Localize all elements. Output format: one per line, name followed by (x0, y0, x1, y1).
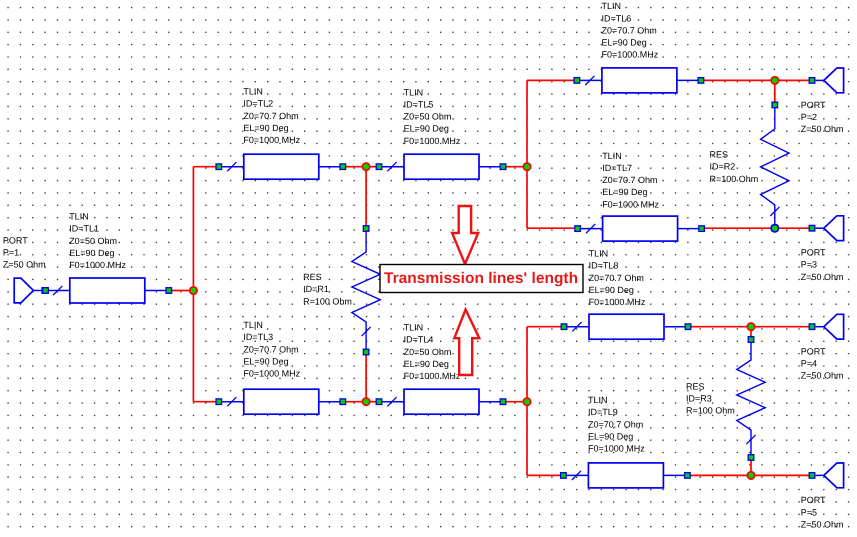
transmission line TL9 (561, 463, 691, 488)
svg-text:R=100 Ohm: R=100 Ohm (710, 174, 759, 184)
wire junction to resistor R2 top (774, 80, 776, 105)
resistor R1 (352, 226, 380, 355)
wire resistor R3 bottom to junction (750, 458, 752, 476)
junction node at TL6 output net (771, 77, 778, 84)
svg-text:ID=TL9: ID=TL9 (588, 407, 618, 417)
resistor R3 (737, 337, 765, 461)
transmission line TL5 (376, 154, 506, 179)
port P4 (809, 314, 843, 339)
svg-text:Z0=70.7 Ohm: Z0=70.7 Ohm (588, 419, 643, 429)
svg-text:ID=TL2: ID=TL2 (243, 99, 273, 109)
junction node at TL9 output net (747, 472, 754, 479)
svg-text:EL=90 Deg: EL=90 Deg (588, 431, 633, 441)
svg-text:PORT: PORT (801, 346, 826, 356)
svg-text:F0=1000 MHz: F0=1000 MHz (243, 135, 300, 145)
svg-text:TLIN: TLIN (589, 249, 609, 259)
label R3 parameters (686, 381, 735, 415)
svg-text:ID=R2: ID=R2 (710, 162, 736, 172)
wire junction to resistor R3 top (750, 327, 752, 340)
wire vertical net TL6 row to TL7 row (526, 80, 528, 228)
svg-text:ID=TL6: ID=TL6 (602, 13, 632, 23)
label port P2 parameters (801, 100, 844, 134)
svg-text:F0=1000 MHz: F0=1000 MHz (243, 369, 300, 379)
svg-text:PORT: PORT (801, 248, 826, 258)
junction node at TL8 output net (747, 323, 754, 330)
wire TL8 output to port 4 (688, 326, 812, 328)
svg-text:F0=1000 MHz: F0=1000 MHz (589, 297, 646, 307)
port P1 (14, 278, 45, 303)
wire vertical net from TL2 row to TL3 row (192, 167, 194, 402)
junction node at TL3 output (362, 398, 369, 405)
junction node at TL1 output (190, 287, 197, 294)
resistor R2 (761, 102, 789, 231)
svg-text:ID=TL5: ID=TL5 (404, 100, 434, 110)
transmission line TL7 (575, 216, 705, 241)
transmission line TL4 (376, 389, 506, 414)
svg-text:Z=50 Ohm: Z=50 Ohm (801, 371, 844, 381)
transmission line TL6 (574, 68, 704, 93)
svg-text:EL=90 Deg: EL=90 Deg (243, 356, 288, 366)
svg-text:TLIN: TLIN (602, 1, 622, 11)
svg-text:Z0=50 Ohm: Z0=50 Ohm (404, 112, 452, 122)
svg-text:F0=1000 MHz: F0=1000 MHz (404, 136, 461, 146)
svg-text:ID=TL7: ID=TL7 (602, 163, 632, 173)
svg-text:EL=90 Deg: EL=90 Deg (602, 38, 647, 48)
wire to TL7 input (527, 227, 578, 229)
svg-text:ID=TL1: ID=TL1 (69, 224, 99, 234)
wire junction to resistor R1 top (365, 167, 367, 229)
svg-text:Z0=50 Ohm: Z0=50 Ohm (404, 347, 452, 357)
svg-text:EL=90 Deg: EL=90 Deg (243, 123, 288, 133)
wire to TL9 input (527, 474, 563, 476)
svg-text:F0=1000 MHz: F0=1000 MHz (404, 371, 461, 381)
transmission line TL3 (216, 389, 346, 414)
svg-text:Z0=70.7 Ohm: Z0=70.7 Ohm (243, 111, 298, 121)
label port P4 parameters (801, 346, 844, 380)
svg-text:P=1: P=1 (3, 248, 19, 258)
transmission line TL2 (216, 154, 346, 179)
svg-text:PORT: PORT (801, 100, 826, 110)
wire to TL3 input (193, 401, 218, 403)
svg-text:Z=50 Ohm: Z=50 Ohm (801, 124, 844, 134)
port P2 (809, 68, 843, 93)
label TL5 parameters (404, 87, 461, 145)
svg-text:Transmission lines' length: Transmission lines' length (384, 270, 578, 287)
svg-text:Z=50 Ohm: Z=50 Ohm (801, 272, 844, 282)
svg-text:Z0=70.7 Ohm: Z0=70.7 Ohm (602, 25, 657, 35)
label port P5 parameters (801, 495, 844, 529)
label R2 parameters (710, 150, 759, 184)
wire TL3 output to junction to TL4 input (343, 401, 379, 403)
svg-text:Z0=70.7 Ohm: Z0=70.7 Ohm (243, 344, 298, 354)
wire to TL2 input (193, 166, 218, 168)
svg-text:TLIN: TLIN (69, 212, 89, 222)
svg-text:RES: RES (303, 272, 322, 282)
wire TL9 output to port 5 (687, 474, 812, 476)
label TL1 parameters (69, 212, 126, 270)
svg-text:R=100 Ohm: R=100 Ohm (686, 406, 735, 416)
svg-text:Z=50 Ohm: Z=50 Ohm (801, 519, 844, 529)
label port P3 parameters (801, 248, 844, 282)
annotation text box: Transmission lines' length (380, 265, 583, 293)
svg-text:TLIN: TLIN (404, 323, 424, 333)
label TL7 parameters (602, 151, 659, 209)
wire to TL6 input (527, 79, 577, 81)
junction node at TL5 output (523, 163, 530, 170)
label TL3 parameters (243, 320, 300, 378)
svg-text:PORT: PORT (3, 236, 28, 246)
svg-text:ID=TL3: ID=TL3 (243, 332, 273, 342)
wire TL1 output to junction (170, 290, 193, 292)
wire TL6 output to port 2 (701, 79, 812, 81)
svg-text:TLIN: TLIN (588, 395, 608, 405)
svg-text:TLIN: TLIN (602, 151, 622, 161)
label TL6 parameters (602, 1, 659, 59)
svg-text:P=2: P=2 (801, 112, 817, 122)
wire vertical net TL8 row to TL9 row (526, 327, 528, 476)
junction node at TL7 output net / R2 bottom (771, 225, 778, 232)
transmission line TL1 (42, 278, 172, 303)
port P3 (809, 216, 843, 241)
junction node at TL4 output (523, 398, 530, 405)
label TL2 parameters (243, 87, 300, 145)
svg-text:F0=1000 MHz: F0=1000 MHz (602, 199, 659, 209)
label port P1 parameters (3, 236, 46, 270)
junction node at TL2 output (362, 163, 369, 170)
svg-text:EL=90 Deg: EL=90 Deg (602, 187, 647, 197)
svg-text:EL=90 Deg: EL=90 Deg (589, 285, 634, 295)
wire to TL8 input (527, 326, 564, 328)
svg-text:P=4: P=4 (801, 359, 817, 369)
label TL8 parameters (589, 249, 646, 307)
svg-text:TLIN: TLIN (243, 87, 263, 97)
wire TL2 output to junction to TL5 input (343, 166, 379, 168)
svg-text:Z0=70.7 Ohm: Z0=70.7 Ohm (602, 175, 657, 185)
svg-text:Z0=50 Ohm: Z0=50 Ohm (69, 236, 117, 246)
svg-text:ID=TL4: ID=TL4 (404, 335, 434, 345)
svg-text:RES: RES (686, 381, 705, 391)
svg-text:RES: RES (710, 150, 729, 160)
label TL4 parameters (404, 323, 461, 381)
wire resistor R1 bottom to junction (365, 352, 367, 402)
svg-text:PORT: PORT (801, 495, 826, 505)
port P5 (809, 463, 843, 488)
svg-text:ID=R3: ID=R3 (686, 393, 712, 403)
svg-text:Z0=70.7 Ohm: Z0=70.7 Ohm (589, 273, 644, 283)
svg-text:TLIN: TLIN (404, 87, 424, 97)
svg-text:Z=50 Ohm: Z=50 Ohm (3, 260, 46, 270)
svg-text:P=3: P=3 (801, 260, 817, 270)
svg-text:F0=1000 MHz: F0=1000 MHz (602, 50, 659, 60)
wire TL7 output to port 3 (702, 227, 812, 229)
transmission line TL8 (561, 314, 691, 339)
svg-text:EL=90 Deg: EL=90 Deg (404, 124, 449, 134)
svg-text:R=100 Ohm: R=100 Ohm (303, 296, 352, 306)
svg-text:ID=TL8: ID=TL8 (589, 261, 619, 271)
svg-text:EL=90 Deg: EL=90 Deg (69, 248, 114, 258)
svg-text:F0=1000 MHz: F0=1000 MHz (69, 260, 126, 270)
label TL9 parameters (588, 395, 645, 453)
svg-text:EL=90 Deg: EL=90 Deg (404, 359, 449, 369)
svg-text:P=5: P=5 (801, 507, 817, 517)
wire TL4 output to junction (503, 401, 527, 403)
svg-text:TLIN: TLIN (243, 320, 263, 330)
annotation arrow down (452, 206, 478, 264)
node port P1 terminal (43, 288, 49, 294)
wire TL5 output to junction (503, 166, 527, 168)
svg-text:F0=1000 MHz: F0=1000 MHz (588, 444, 645, 454)
svg-text:ID=R1: ID=R1 (303, 284, 329, 294)
annotation arrow up (454, 310, 479, 376)
label R1 parameters (303, 272, 352, 306)
